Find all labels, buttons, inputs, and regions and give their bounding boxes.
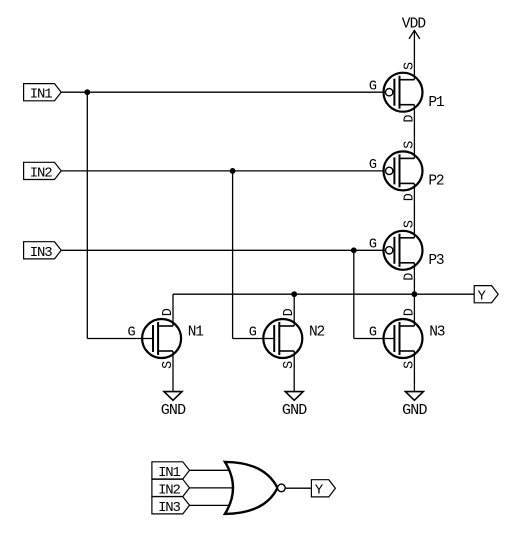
NOR gate U1 body bbox=[225, 462, 278, 514]
NOR input wire IN2 bbox=[189, 487, 236, 489]
svg-text:GND: GND bbox=[402, 402, 427, 419]
svg-text:IN2: IN2 bbox=[30, 165, 52, 181]
transistor N1 bbox=[142, 319, 181, 358]
svg-text:S: S bbox=[402, 141, 417, 149]
wire VDD to P1 source bbox=[413, 30, 415, 79]
svg-text:Y: Y bbox=[478, 289, 487, 305]
svg-text:S: S bbox=[161, 361, 176, 369]
net label NOR IN2 bbox=[152, 479, 190, 498]
NOR output wire to Y bbox=[285, 487, 311, 489]
wire into N3 gate bbox=[354, 338, 395, 340]
net label NOR IN1 bbox=[152, 462, 190, 481]
svg-text:N3: N3 bbox=[429, 325, 445, 341]
wire P2 drain to P3 source bbox=[413, 183, 415, 237]
net label NOR IN3 bbox=[152, 497, 190, 516]
svg-text:D: D bbox=[161, 308, 176, 316]
transistor P1 bbox=[384, 73, 423, 112]
net label IN3 bbox=[24, 242, 62, 261]
svg-text:G: G bbox=[369, 326, 377, 341]
wire P3 drain to node Y bbox=[413, 263, 415, 294]
svg-text:P1: P1 bbox=[428, 95, 444, 111]
junction node IN1 bbox=[84, 89, 90, 95]
svg-text:Y: Y bbox=[315, 483, 324, 499]
svg-text:D: D bbox=[402, 193, 417, 201]
wire P1 drain to P2 source bbox=[413, 105, 415, 159]
svg-text:IN1: IN1 bbox=[158, 465, 180, 481]
net label Y bbox=[474, 286, 498, 305]
junction node Y at N3 drain bbox=[412, 291, 418, 297]
svg-text:GND: GND bbox=[161, 402, 186, 419]
NOR output inversion bubble bbox=[278, 484, 286, 492]
wire N3 source to ground bbox=[413, 351, 415, 392]
svg-text:N1: N1 bbox=[188, 325, 204, 341]
transistor N2 bbox=[263, 319, 302, 358]
wire into N1 gate bbox=[87, 338, 153, 340]
ground symbol at x=294.2 bbox=[282, 392, 307, 420]
wire IN3 to P3 gate bbox=[61, 249, 385, 251]
wire IN3 down to N3 gate bbox=[353, 250, 355, 338]
svg-text:D: D bbox=[402, 308, 417, 316]
wire N1 source to ground bbox=[172, 351, 174, 392]
svg-text:GND: GND bbox=[282, 402, 307, 419]
NOR input wire IN1 bbox=[189, 469, 232, 471]
svg-text:P3: P3 bbox=[428, 253, 444, 269]
svg-text:S: S bbox=[282, 361, 297, 369]
junction node IN2 bbox=[230, 168, 236, 174]
transistor N3 bbox=[384, 319, 423, 358]
net label IN1 bbox=[24, 84, 62, 103]
svg-text:G: G bbox=[369, 238, 377, 253]
ground symbol at x=173.0 bbox=[161, 392, 186, 420]
svg-text:G: G bbox=[369, 158, 377, 173]
transistor P3 bbox=[384, 231, 423, 270]
svg-text:G: G bbox=[127, 326, 135, 341]
wire N2 drain up to Y bbox=[293, 294, 295, 326]
ground symbol at x=414.4 bbox=[402, 392, 427, 420]
NOR input wire IN3 bbox=[189, 504, 232, 506]
svg-text:IN3: IN3 bbox=[158, 500, 180, 516]
svg-text:D: D bbox=[402, 114, 417, 122]
wire IN1 down to N1 gate bbox=[86, 92, 88, 338]
transistor P2 bbox=[384, 151, 423, 190]
svg-text:IN1: IN1 bbox=[30, 87, 52, 103]
wire IN2 down to N2 gate bbox=[232, 171, 234, 339]
svg-text:D: D bbox=[282, 308, 297, 316]
svg-text:P2: P2 bbox=[428, 174, 444, 190]
net label IN2 bbox=[24, 162, 62, 181]
svg-text:VDD: VDD bbox=[402, 16, 426, 32]
svg-text:N2: N2 bbox=[309, 325, 325, 341]
svg-text:D: D bbox=[402, 273, 417, 281]
wire node Y horizontal bbox=[173, 293, 474, 295]
wire N3 drain up to Y bbox=[413, 294, 415, 326]
svg-text:S: S bbox=[402, 361, 417, 369]
svg-text:IN2: IN2 bbox=[158, 482, 180, 498]
wire IN2 to P2 gate bbox=[61, 170, 385, 172]
svg-text:S: S bbox=[402, 62, 417, 70]
wire into N2 gate bbox=[233, 338, 275, 340]
power flag VDD bbox=[402, 16, 426, 39]
junction node IN3 bbox=[351, 247, 357, 253]
svg-text:G: G bbox=[369, 79, 377, 94]
wire IN1 to P1 gate bbox=[61, 91, 385, 93]
svg-text:IN3: IN3 bbox=[30, 245, 52, 261]
svg-text:S: S bbox=[402, 220, 417, 228]
wire N2 source to ground bbox=[293, 351, 295, 392]
svg-text:G: G bbox=[249, 326, 257, 341]
wire N1 drain up to Y bbox=[172, 294, 174, 326]
junction node Y at N2 drain bbox=[291, 291, 297, 297]
net label NOR Y bbox=[311, 480, 335, 499]
